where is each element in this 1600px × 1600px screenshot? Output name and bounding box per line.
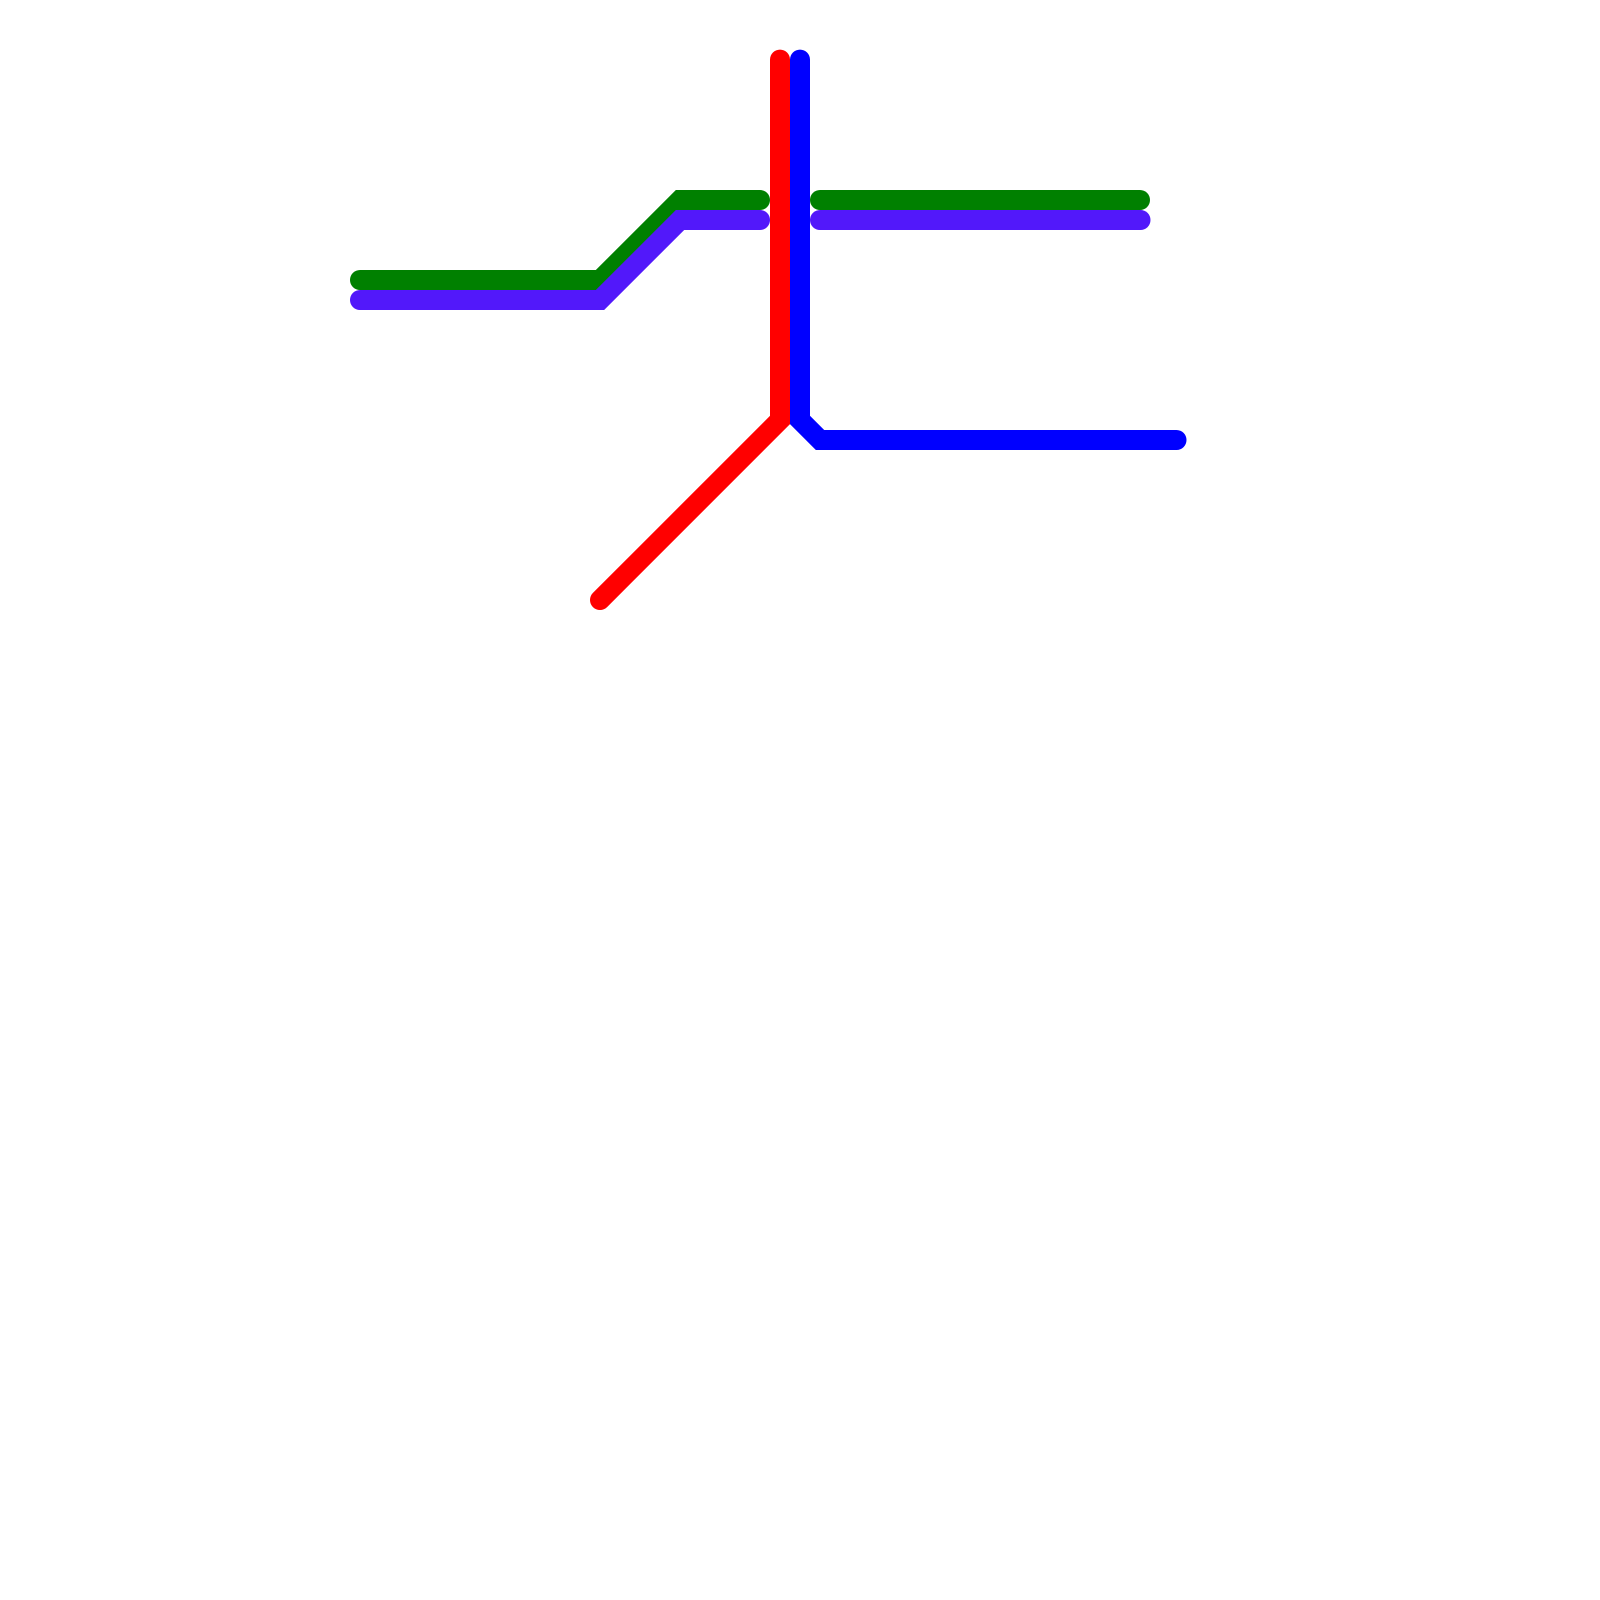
green route line, left segment (360, 200, 760, 280)
purple route line, right segment (820, 210, 1141, 230)
blue route line (800, 60, 1177, 440)
purple route line, left segment (360, 220, 760, 300)
red route line (600, 60, 780, 600)
green route line, right segment (820, 190, 1140, 210)
